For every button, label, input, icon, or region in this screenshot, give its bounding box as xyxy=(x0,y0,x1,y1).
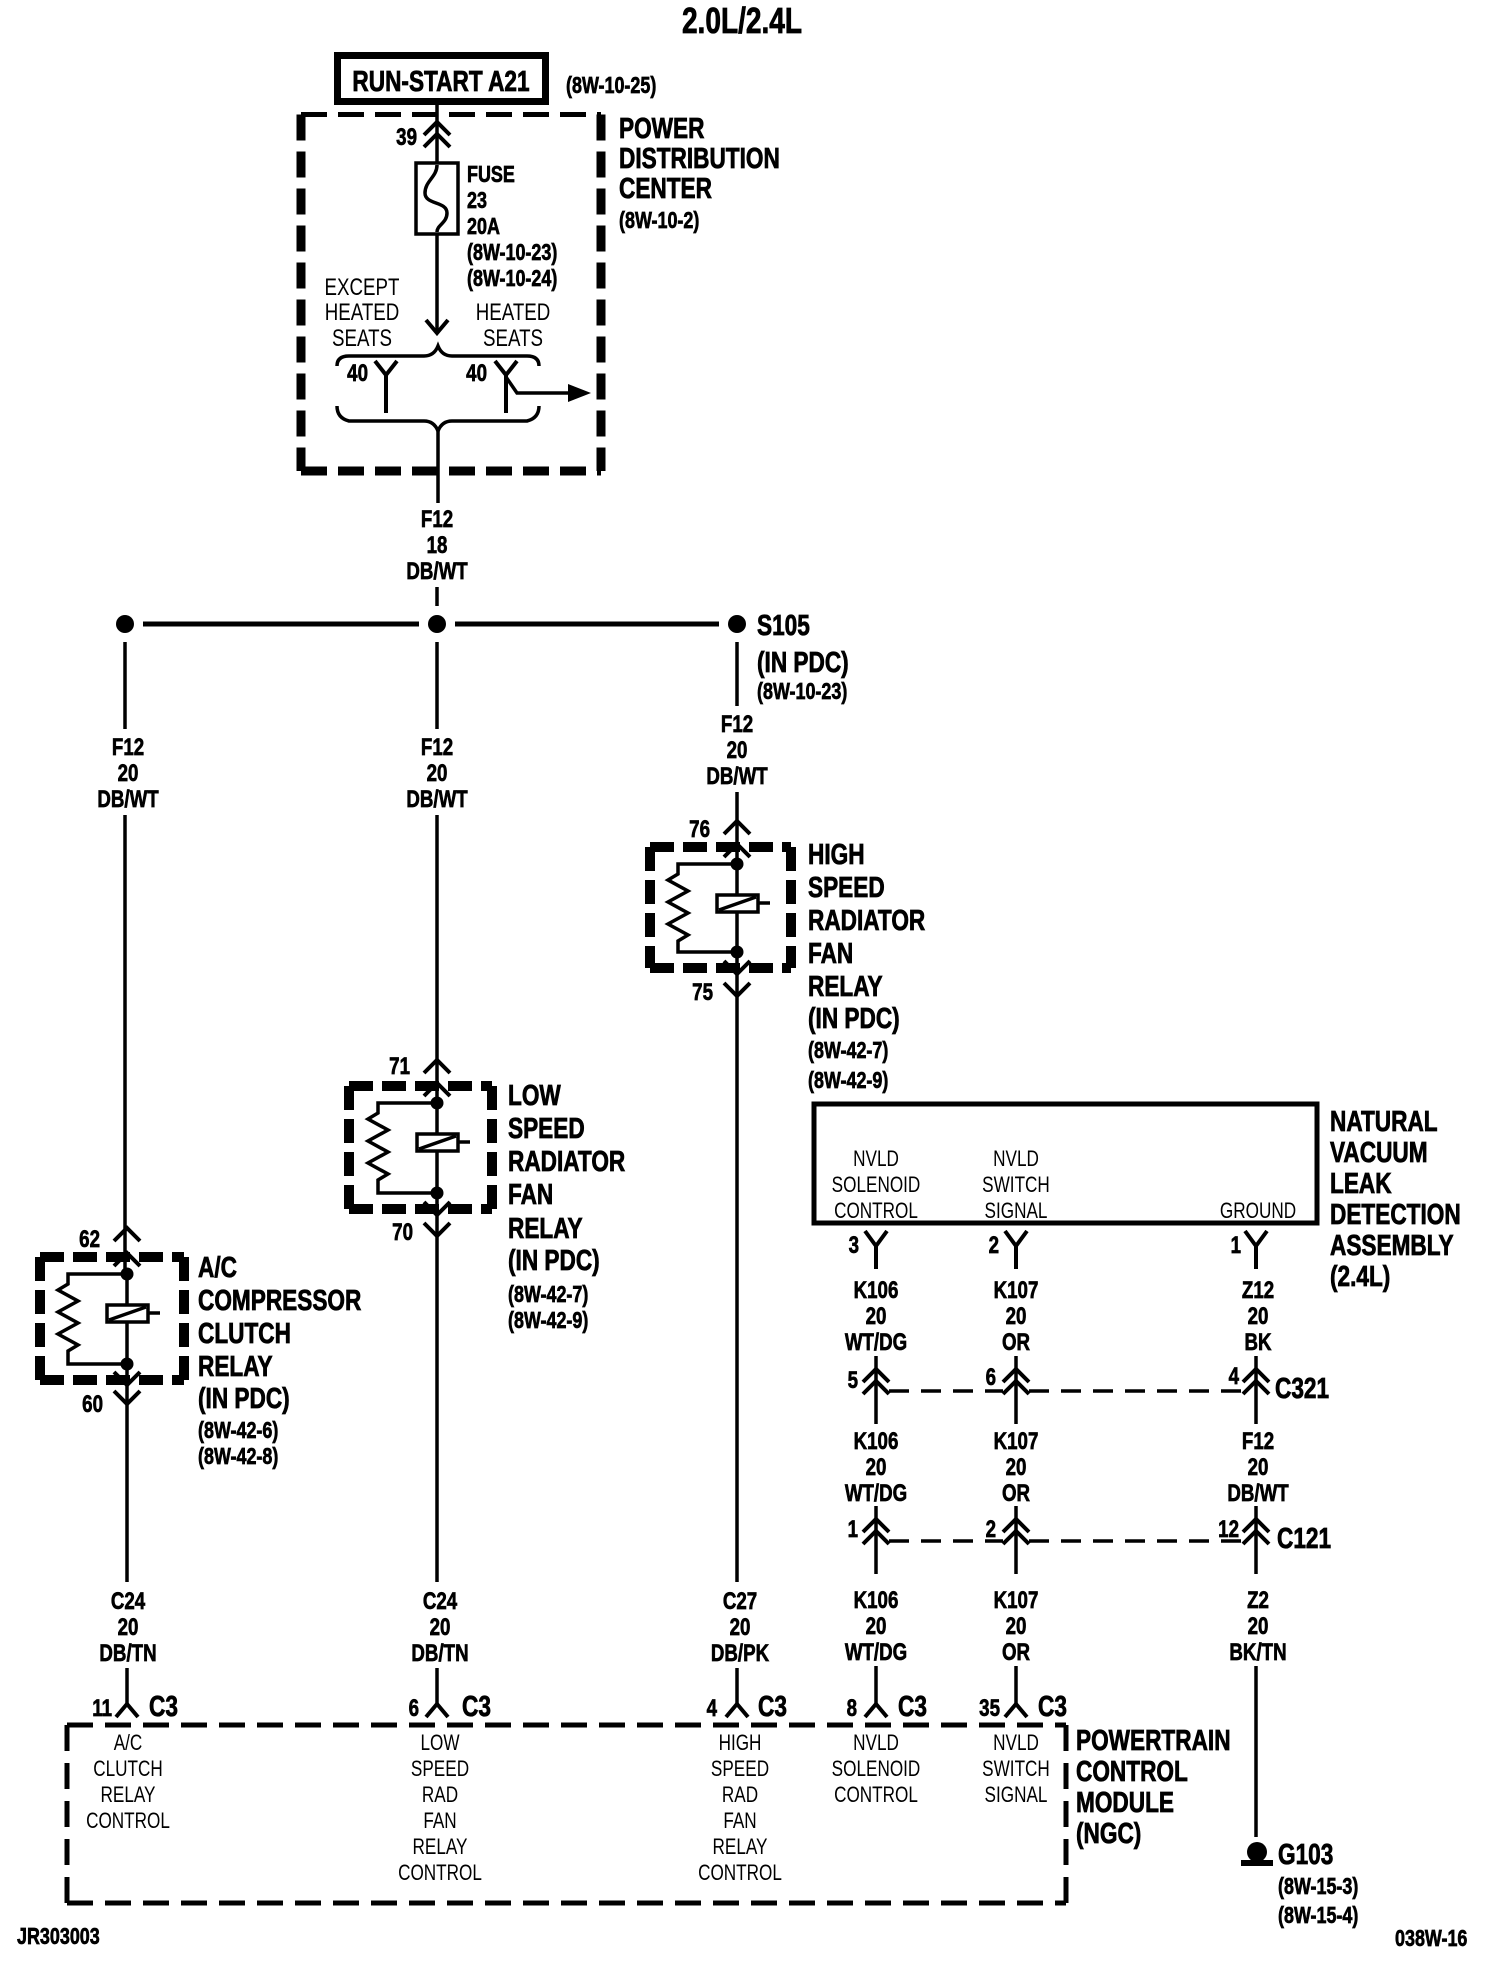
relay dashed box low speed radiator fan relay xyxy=(349,1086,492,1209)
wire through C121 x=1016 xyxy=(1014,1506,1018,1574)
svg-text:4: 4 xyxy=(1229,1363,1239,1390)
svg-text:C27: C27 xyxy=(723,1588,757,1615)
svg-text:EXCEPT: EXCEPT xyxy=(325,274,400,301)
connector pin 6 C3 xyxy=(426,1704,448,1717)
svg-text:2: 2 xyxy=(989,1232,999,1259)
svg-text:RADIATOR: RADIATOR xyxy=(808,903,925,936)
svg-text:CONTROL: CONTROL xyxy=(834,1199,918,1224)
relay coil (high speed radiator fan relay) xyxy=(717,895,758,912)
connector pin 2 xyxy=(1005,1231,1027,1269)
svg-text:C3: C3 xyxy=(462,1689,491,1722)
svg-text:35: 35 xyxy=(979,1695,1000,1722)
svg-text:C24: C24 xyxy=(423,1588,457,1615)
svg-text:SPEED: SPEED xyxy=(508,1111,585,1144)
svg-text:62: 62 xyxy=(79,1226,100,1253)
wire through C321 x=876 xyxy=(874,1356,878,1424)
connector chevron pin 60 xyxy=(114,1391,140,1404)
svg-text:1: 1 xyxy=(1231,1232,1241,1259)
svg-text:ASSEMBLY: ASSEMBLY xyxy=(1330,1228,1454,1261)
svg-text:OR: OR xyxy=(1002,1639,1030,1666)
svg-text:20: 20 xyxy=(1248,1613,1269,1640)
connector C321 chevron lower x=876 xyxy=(863,1381,889,1394)
RUN-START A21 feed box xyxy=(338,56,546,102)
wire col2 to PCM pin 6 xyxy=(435,1668,439,1704)
wire coil top (A/C compressor clutch relay) xyxy=(125,1274,129,1305)
wire F12 col2 upper xyxy=(435,642,439,729)
connector C321 chevron lower x=1016 xyxy=(1003,1381,1029,1394)
wire col4 to PCM pin 8 xyxy=(874,1666,878,1704)
upper split brace xyxy=(337,346,539,366)
svg-text:SWITCH: SWITCH xyxy=(982,1173,1050,1198)
svg-text:(IN PDC): (IN PDC) xyxy=(198,1381,290,1414)
svg-text:20: 20 xyxy=(727,737,748,764)
relay dashed box high speed radiator fan relay xyxy=(650,847,791,968)
svg-text:FAN: FAN xyxy=(423,1809,456,1834)
junction dot bottom (A/C compressor clutch relay) xyxy=(121,1358,134,1371)
svg-text:1: 1 xyxy=(848,1516,858,1543)
svg-text:F12: F12 xyxy=(421,734,453,761)
connector chevron at box border bottom (A/C compressor clutch relay) xyxy=(114,1372,140,1385)
svg-text:18: 18 xyxy=(427,532,448,559)
svg-text:K107: K107 xyxy=(994,1428,1039,1455)
junction dot left xyxy=(116,615,134,633)
connector chevron at box border top (A/C compressor clutch relay) xyxy=(114,1253,140,1266)
svg-text:SOLENOID: SOLENOID xyxy=(832,1173,921,1198)
wire coil bottom (A/C compressor clutch relay) xyxy=(125,1322,129,1364)
wire F12 out of PDC xyxy=(436,431,440,503)
svg-text:DB/TN: DB/TN xyxy=(411,1640,468,1667)
svg-text:39: 39 xyxy=(396,124,417,151)
connector chevron pin 71 xyxy=(424,1060,450,1073)
connector C121 chevron upper x=1016 xyxy=(1003,1519,1029,1532)
svg-text:GROUND: GROUND xyxy=(1220,1199,1296,1224)
lower merge brace xyxy=(337,406,539,431)
svg-text:K106: K106 xyxy=(854,1277,899,1304)
svg-text:BK/TN: BK/TN xyxy=(1229,1639,1286,1666)
svg-text:CONTROL: CONTROL xyxy=(86,1809,170,1834)
svg-text:K107: K107 xyxy=(994,1587,1039,1614)
svg-text:SIGNAL: SIGNAL xyxy=(985,1199,1048,1224)
svg-text:DB/WT: DB/WT xyxy=(406,786,467,813)
svg-text:RELAY: RELAY xyxy=(808,969,883,1002)
svg-text:OR: OR xyxy=(1002,1480,1030,1507)
wire F12 to splice bus xyxy=(435,587,439,606)
svg-text:C321: C321 xyxy=(1275,1371,1329,1404)
svg-text:(8W-15-3): (8W-15-3) xyxy=(1278,1874,1358,1900)
wire coil top (low speed radiator fan relay) xyxy=(435,1103,439,1134)
svg-text:C3: C3 xyxy=(149,1689,178,1722)
svg-text:LOW: LOW xyxy=(420,1731,459,1756)
junction dot bottom (high speed radiator fan relay) xyxy=(731,946,744,959)
svg-text:(8W-10-23): (8W-10-23) xyxy=(757,679,847,705)
svg-text:VACUUM: VACUUM xyxy=(1330,1135,1428,1168)
svg-text:(8W-10-24): (8W-10-24) xyxy=(467,266,557,292)
NVLD assembly box xyxy=(814,1104,1317,1223)
C321 connector dashed line xyxy=(889,1389,1243,1393)
svg-text:SIGNAL: SIGNAL xyxy=(985,1783,1048,1808)
svg-text:11: 11 xyxy=(92,1695,112,1722)
svg-text:MODULE: MODULE xyxy=(1076,1785,1174,1818)
svg-text:75: 75 xyxy=(692,979,713,1006)
connector C121 chevron lower x=1016 xyxy=(1003,1531,1029,1544)
svg-text:(8W-42-8): (8W-42-8) xyxy=(198,1444,278,1470)
svg-text:RELAY: RELAY xyxy=(413,1835,468,1860)
wire fuse to split xyxy=(435,234,439,331)
connector pin 8 C3 xyxy=(865,1704,887,1717)
svg-text:SPEED: SPEED xyxy=(711,1757,769,1782)
junction dot top (A/C compressor clutch relay) xyxy=(121,1268,134,1281)
svg-text:LEAK: LEAK xyxy=(1330,1166,1392,1199)
connector chevron at box border top (high speed radiator fan relay) xyxy=(724,844,750,857)
svg-text:DETECTION: DETECTION xyxy=(1330,1197,1461,1230)
C121 connector dashed line xyxy=(889,1539,1243,1543)
svg-text:20: 20 xyxy=(118,1614,139,1641)
wire col5 to PCM pin 35 xyxy=(1014,1666,1018,1704)
svg-text:(NGC): (NGC) xyxy=(1076,1816,1141,1849)
wire A21 from RUN-START to fuse xyxy=(435,101,439,163)
svg-text:FUSE: FUSE xyxy=(467,162,515,188)
svg-text:NATURAL: NATURAL xyxy=(1330,1104,1438,1137)
wire col3 to PCM pin 4 xyxy=(735,1668,739,1704)
connector C321 chevron upper x=1256 xyxy=(1243,1369,1269,1382)
svg-text:CLUTCH: CLUTCH xyxy=(93,1757,163,1782)
wire Z2 to ground xyxy=(1254,1666,1258,1837)
svg-text:NVLD: NVLD xyxy=(853,1147,899,1172)
svg-text:(IN PDC): (IN PDC) xyxy=(508,1243,600,1276)
svg-text:20: 20 xyxy=(866,1454,887,1481)
svg-text:(8W-42-9): (8W-42-9) xyxy=(508,1308,588,1334)
svg-text:20: 20 xyxy=(1006,1613,1027,1640)
wire C24 col1 xyxy=(125,1364,129,1582)
svg-text:OR: OR xyxy=(1002,1329,1030,1356)
ground symbol G103 xyxy=(1247,1842,1267,1862)
svg-text:F12: F12 xyxy=(1242,1428,1274,1455)
Power Distribution Center dashed box xyxy=(301,115,601,472)
svg-text:RAD: RAD xyxy=(722,1783,758,1808)
svg-text:4: 4 xyxy=(707,1695,717,1722)
svg-text:(8W-42-7): (8W-42-7) xyxy=(808,1038,888,1064)
svg-text:038W-16: 038W-16 xyxy=(1395,1926,1467,1952)
svg-text:DB/WT: DB/WT xyxy=(97,786,158,813)
svg-text:CONTROL: CONTROL xyxy=(1076,1754,1188,1787)
svg-text:RADIATOR: RADIATOR xyxy=(508,1144,625,1177)
connector C321 chevron upper x=1016 xyxy=(1003,1369,1029,1382)
svg-text:(IN PDC): (IN PDC) xyxy=(808,1001,900,1034)
connector C321 chevron lower x=1256 xyxy=(1243,1381,1269,1394)
svg-text:(8W-15-4): (8W-15-4) xyxy=(1278,1903,1358,1929)
svg-text:CLUTCH: CLUTCH xyxy=(198,1316,291,1349)
wire col1 to PCM pin 11 xyxy=(125,1668,129,1704)
svg-text:CONTROL: CONTROL xyxy=(834,1783,918,1808)
svg-text:K107: K107 xyxy=(994,1277,1039,1304)
junction dot S105 xyxy=(728,615,746,633)
svg-text:SEATS: SEATS xyxy=(483,325,543,352)
wire C24 col2 xyxy=(435,1193,439,1582)
svg-text:RELAY: RELAY xyxy=(198,1349,273,1382)
relay coil (A/C compressor clutch relay) xyxy=(107,1305,148,1322)
wire C27 col3 xyxy=(735,953,739,1582)
svg-text:(8W-10-25): (8W-10-25) xyxy=(566,73,656,99)
svg-text:C3: C3 xyxy=(898,1689,927,1722)
connector chevron pin 62 xyxy=(114,1228,140,1241)
junction dot top (high speed radiator fan relay) xyxy=(731,858,744,871)
Powertrain Control Module dashed box xyxy=(67,1725,1066,1903)
wire coil top (high speed radiator fan relay) xyxy=(735,864,739,895)
svg-text:POWER: POWER xyxy=(619,111,705,144)
svg-text:HIGH: HIGH xyxy=(808,837,865,870)
svg-text:F12: F12 xyxy=(421,506,453,533)
svg-text:C3: C3 xyxy=(758,1689,787,1722)
wire F12 col3 to high speed relay xyxy=(735,792,739,864)
arrowhead down at split xyxy=(426,320,448,333)
svg-text:Z12: Z12 xyxy=(1242,1277,1274,1304)
connector chevron pin 39 upper xyxy=(424,122,450,135)
svg-text:(8W-10-23): (8W-10-23) xyxy=(467,240,557,266)
svg-text:DISTRIBUTION: DISTRIBUTION xyxy=(619,141,780,174)
connector Y pin 40 left xyxy=(375,361,397,413)
connector C121 chevron lower x=876 xyxy=(863,1531,889,1544)
connector C321 chevron upper x=876 xyxy=(863,1369,889,1382)
svg-text:F12: F12 xyxy=(112,734,144,761)
svg-text:COMPRESSOR: COMPRESSOR xyxy=(198,1283,362,1316)
svg-text:RUN-START A21: RUN-START A21 xyxy=(352,64,529,97)
resistor element (low speed radiator fan relay) xyxy=(368,1103,437,1193)
svg-text:CONTROL: CONTROL xyxy=(398,1861,482,1886)
connector C121 chevron upper x=1256 xyxy=(1243,1519,1269,1532)
svg-text:K106: K106 xyxy=(854,1587,899,1614)
svg-text:40: 40 xyxy=(347,360,368,387)
fuse 23 20A xyxy=(416,163,458,234)
svg-text:RAD: RAD xyxy=(422,1783,458,1808)
svg-text:RELAY: RELAY xyxy=(508,1211,583,1244)
svg-text:DB/WT: DB/WT xyxy=(706,763,767,790)
svg-text:DB/TN: DB/TN xyxy=(99,1640,156,1667)
svg-text:(8W-10-2): (8W-10-2) xyxy=(619,208,699,234)
connector chevron pin 70 xyxy=(424,1223,450,1236)
svg-text:20: 20 xyxy=(118,760,139,787)
svg-text:S105: S105 xyxy=(757,608,810,641)
wire F12 col2 to low speed relay xyxy=(435,815,439,1104)
wire through C121 x=1256 xyxy=(1254,1506,1258,1574)
connector chevron pin 75 xyxy=(724,983,750,996)
svg-text:20A: 20A xyxy=(467,214,500,240)
svg-text:(8W-42-7): (8W-42-7) xyxy=(508,1282,588,1308)
connector chevron at box border bottom (low speed radiator fan relay) xyxy=(424,1202,450,1215)
svg-text:40: 40 xyxy=(466,360,487,387)
svg-text:NVLD: NVLD xyxy=(993,1147,1039,1172)
svg-text:20: 20 xyxy=(730,1614,751,1641)
svg-text:Z2: Z2 xyxy=(1247,1587,1269,1614)
svg-text:12: 12 xyxy=(1218,1516,1239,1543)
svg-text:CONTROL: CONTROL xyxy=(698,1861,782,1886)
svg-text:20: 20 xyxy=(866,1613,887,1640)
fuse element curve xyxy=(425,165,447,232)
svg-text:20: 20 xyxy=(430,1614,451,1641)
svg-text:20: 20 xyxy=(1248,1303,1269,1330)
svg-text:20: 20 xyxy=(1248,1454,1269,1481)
svg-text:(IN PDC): (IN PDC) xyxy=(757,645,849,678)
svg-text:FAN: FAN xyxy=(808,936,853,969)
svg-text:C121: C121 xyxy=(1277,1521,1331,1554)
wire through C121 x=876 xyxy=(874,1506,878,1574)
svg-text:G103: G103 xyxy=(1278,1837,1333,1870)
svg-text:FAN: FAN xyxy=(508,1177,553,1210)
svg-text:POWERTRAIN: POWERTRAIN xyxy=(1076,1723,1231,1756)
svg-text:HEATED: HEATED xyxy=(325,299,400,326)
svg-text:HEATED: HEATED xyxy=(476,299,551,326)
relay coil (low speed radiator fan relay) xyxy=(417,1134,458,1151)
svg-text:DB/PK: DB/PK xyxy=(711,1640,770,1667)
svg-text:C3: C3 xyxy=(1038,1689,1067,1722)
svg-text:BK: BK xyxy=(1244,1329,1271,1356)
svg-text:SEATS: SEATS xyxy=(332,325,392,352)
connector pin 35 C3 xyxy=(1005,1704,1027,1717)
svg-text:20: 20 xyxy=(1006,1303,1027,1330)
svg-text:8: 8 xyxy=(847,1695,857,1722)
resistor element (A/C compressor clutch relay) xyxy=(58,1274,127,1364)
svg-text:K106: K106 xyxy=(854,1428,899,1455)
svg-text:C24: C24 xyxy=(111,1588,145,1615)
svg-text:JR303003: JR303003 xyxy=(17,1924,100,1950)
connector chevron pin 76 xyxy=(724,821,750,834)
svg-text:6: 6 xyxy=(986,1364,996,1391)
svg-text:RELAY: RELAY xyxy=(713,1835,768,1860)
wire F12 col1 upper xyxy=(123,642,127,729)
svg-text:76: 76 xyxy=(689,816,710,843)
svg-text:23: 23 xyxy=(467,188,487,214)
svg-text:60: 60 xyxy=(82,1391,103,1418)
svg-text:WT/DG: WT/DG xyxy=(845,1480,907,1507)
svg-text:70: 70 xyxy=(392,1219,413,1246)
junction dot center xyxy=(428,615,446,633)
svg-text:2.0L/2.4L: 2.0L/2.4L xyxy=(682,1,802,41)
svg-text:F12: F12 xyxy=(721,711,753,738)
svg-text:SWITCH: SWITCH xyxy=(982,1757,1050,1782)
svg-text:WT/DG: WT/DG xyxy=(845,1329,907,1356)
splice bus wire S105 xyxy=(143,622,719,627)
resistor element (high speed radiator fan relay) xyxy=(668,864,737,952)
svg-text:6: 6 xyxy=(409,1695,419,1722)
svg-text:20: 20 xyxy=(1006,1454,1027,1481)
svg-text:3: 3 xyxy=(849,1232,859,1259)
svg-text:NVLD: NVLD xyxy=(853,1731,899,1756)
svg-text:5: 5 xyxy=(848,1367,858,1394)
svg-text:20: 20 xyxy=(427,760,448,787)
connector chevron pin 39 lower xyxy=(424,134,450,147)
svg-text:A/C: A/C xyxy=(198,1250,237,1283)
connector chevron at box border bottom (high speed radiator fan relay) xyxy=(724,961,750,974)
connector pin 11 C3 xyxy=(116,1704,138,1717)
svg-text:FAN: FAN xyxy=(723,1809,756,1834)
junction dot top (low speed radiator fan relay) xyxy=(431,1097,444,1110)
connector pin 4 C3 xyxy=(726,1704,748,1717)
connector C121 chevron upper x=876 xyxy=(863,1519,889,1532)
svg-text:A/C: A/C xyxy=(114,1731,143,1756)
wire coil bottom (low speed radiator fan relay) xyxy=(435,1151,439,1193)
svg-text:CENTER: CENTER xyxy=(619,171,712,204)
connector Y pin 40 right xyxy=(495,361,517,413)
svg-text:SOLENOID: SOLENOID xyxy=(832,1757,921,1782)
svg-text:NVLD: NVLD xyxy=(993,1731,1039,1756)
svg-text:WT/DG: WT/DG xyxy=(845,1639,907,1666)
junction dot bottom (low speed radiator fan relay) xyxy=(431,1187,444,1200)
svg-text:SPEED: SPEED xyxy=(411,1757,469,1782)
svg-text:HIGH: HIGH xyxy=(719,1731,762,1756)
svg-text:2: 2 xyxy=(986,1516,996,1543)
svg-text:(2.4L): (2.4L) xyxy=(1330,1259,1390,1292)
svg-text:DB/WT: DB/WT xyxy=(1227,1480,1288,1507)
connector chevron at box border top (low speed radiator fan relay) xyxy=(424,1083,450,1096)
svg-text:DB/WT: DB/WT xyxy=(406,558,467,585)
svg-text:SPEED: SPEED xyxy=(808,870,885,903)
wire F12 col3 upper xyxy=(735,642,739,706)
svg-text:20: 20 xyxy=(866,1303,887,1330)
wire coil bottom (high speed radiator fan relay) xyxy=(735,912,739,952)
svg-text:RELAY: RELAY xyxy=(101,1783,156,1808)
connector C121 chevron lower x=1256 xyxy=(1243,1531,1269,1544)
connector pin 1 xyxy=(1245,1231,1267,1269)
wire F12 col1 to A/C relay xyxy=(123,815,127,1274)
svg-text:(8W-42-6): (8W-42-6) xyxy=(198,1418,278,1444)
svg-text:LOW: LOW xyxy=(508,1078,561,1111)
arrow branch to heated seats circuit xyxy=(506,377,568,393)
connector pin 3 xyxy=(865,1231,887,1269)
wire through C321 x=1256 xyxy=(1254,1356,1258,1424)
relay dashed box A/C compressor clutch relay xyxy=(40,1257,184,1380)
wire through C321 x=1016 xyxy=(1014,1356,1018,1424)
svg-text:71: 71 xyxy=(389,1053,410,1080)
svg-text:(8W-42-9): (8W-42-9) xyxy=(808,1068,888,1094)
